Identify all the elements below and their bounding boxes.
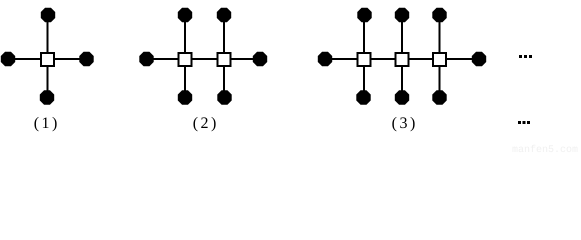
ellipsis upper row	[519, 55, 532, 58]
node square S2b	[218, 53, 231, 66]
wire: fig3 vertical column 2	[401, 15, 403, 97]
node square S3a	[358, 53, 371, 66]
figure 1	[1, 8, 94, 132]
wire: fig1 horizontal	[8, 58, 87, 60]
node dot fig3 bottom2	[395, 90, 409, 104]
figure 2	[139, 8, 267, 132]
node dot fig3 left	[318, 52, 332, 66]
node dot fig3 bottom3	[432, 90, 446, 104]
node dot fig3 top3	[432, 8, 446, 22]
wire: fig2 vertical right column	[223, 15, 225, 97]
ellipsis dot u2	[524, 55, 527, 58]
wire: fig3 vertical column 1	[363, 15, 365, 97]
wire: fig3 vertical column 3	[439, 15, 441, 97]
node dot fig2 left	[139, 52, 153, 66]
svg-text:(1): (1)	[34, 115, 60, 132]
node dot fig2 top2	[217, 8, 231, 22]
ellipsis dot u1	[519, 55, 522, 58]
node dot fig2 top1	[178, 8, 192, 22]
node dot fig2 bottom2	[217, 90, 231, 104]
svg-text:manfen5.com: manfen5.com	[512, 144, 578, 153]
node dot fig1 top	[41, 8, 55, 22]
wire: fig1 vertical	[47, 15, 49, 97]
ellipsis dot l2	[523, 121, 526, 124]
ellipsis dot l3	[527, 121, 530, 124]
ellipsis dot l1	[518, 121, 521, 124]
figure 3	[318, 8, 486, 132]
node dot fig1 right	[79, 52, 93, 66]
wire: fig2 vertical left column	[184, 15, 186, 97]
svg-text:(3): (3)	[392, 115, 418, 132]
wire: fig3 horizontal	[325, 58, 479, 60]
ellipsis lower row	[518, 121, 530, 124]
svg-text:(2): (2)	[193, 115, 219, 132]
node dot fig3 top2	[395, 8, 409, 22]
node dot fig3 right	[472, 52, 486, 66]
node dot fig2 bottom1	[178, 90, 192, 104]
node dot fig3 top1	[357, 8, 371, 22]
wire: fig2 horizontal	[147, 58, 261, 60]
node square S1	[41, 53, 54, 66]
node dot fig1 left	[1, 52, 15, 66]
node dot fig2 right	[253, 52, 267, 66]
node square S3c	[433, 53, 446, 66]
node square S2a	[179, 53, 192, 66]
ellipsis dot u3	[529, 55, 532, 58]
node square S3b	[396, 53, 409, 66]
node dot fig3 bottom1	[356, 90, 370, 104]
node dot fig1 bottom	[40, 90, 54, 104]
